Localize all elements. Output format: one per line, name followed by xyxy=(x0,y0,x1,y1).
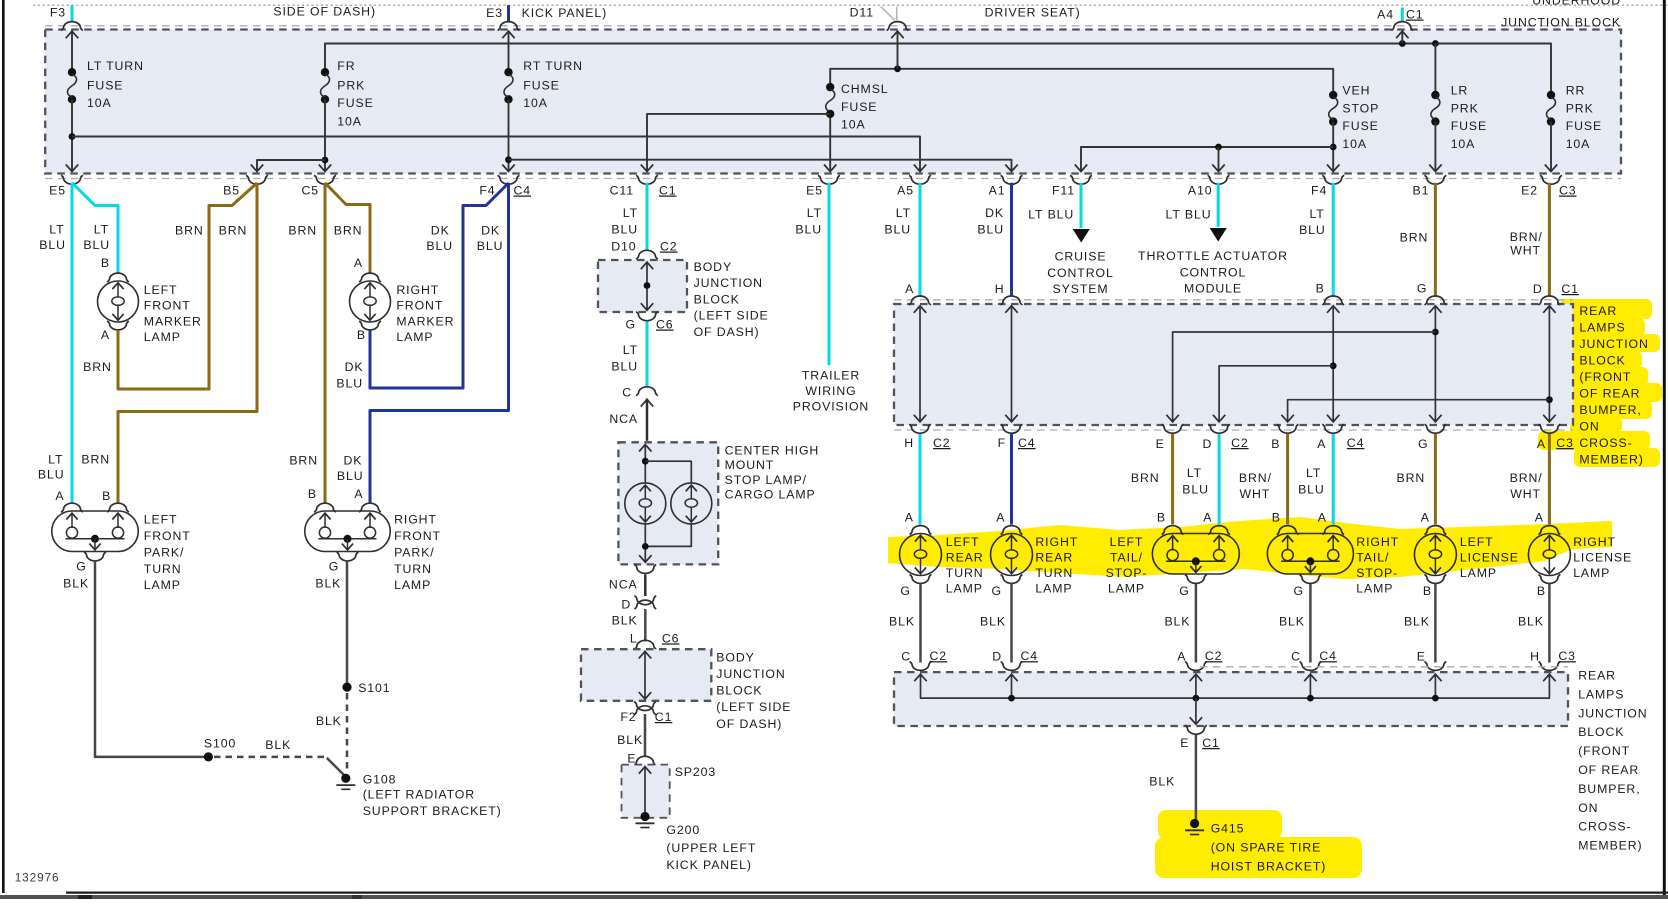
svg-text:10A: 10A xyxy=(523,96,548,110)
svg-text:C4: C4 xyxy=(1347,436,1365,450)
svg-text:LT: LT xyxy=(623,343,638,357)
svg-text:A: A xyxy=(1535,511,1544,525)
svg-text:BODY: BODY xyxy=(694,260,732,274)
svg-text:TURN: TURN xyxy=(394,562,432,576)
fuse RR PRK 10A xyxy=(1547,91,1555,99)
wire NCA below CHMSL xyxy=(644,575,647,597)
svg-text:BLU: BLU xyxy=(884,223,911,237)
svg-text:LAMP: LAMP xyxy=(144,578,181,592)
wire rear block G split to E and G xyxy=(1434,306,1436,421)
svg-text:B: B xyxy=(1271,437,1280,451)
svg-text:FUSE: FUSE xyxy=(87,79,123,93)
svg-text:OF REAR: OF REAR xyxy=(1579,386,1640,400)
wire RT TURN fuse output xyxy=(508,99,510,170)
upper section bottom dashed line xyxy=(45,25,1621,27)
branch A10 xyxy=(1218,147,1220,170)
wire F3 entry xyxy=(71,31,73,73)
svg-text:C4: C4 xyxy=(1021,649,1039,663)
svg-text:LICENSE: LICENSE xyxy=(1573,551,1632,565)
svg-text:LAMP: LAMP xyxy=(1460,566,1497,580)
svg-text:C: C xyxy=(901,650,911,664)
lamp RIGHT LICENSE LAMP xyxy=(1539,526,1561,535)
svg-text:C3: C3 xyxy=(1558,649,1576,663)
svg-text:10A: 10A xyxy=(1451,137,1476,151)
svg-text:MOUNT: MOUNT xyxy=(725,458,775,472)
svg-text:10A: 10A xyxy=(337,115,362,129)
svg-text:JUNCTION: JUNCTION xyxy=(694,276,763,290)
svg-text:SYSTEM: SYSTEM xyxy=(1053,282,1109,296)
lamp LEFT FRONT MARKER LAMP xyxy=(107,273,129,282)
svg-text:CROSS-: CROSS- xyxy=(1579,436,1632,450)
svg-text:BLK: BLK xyxy=(63,577,89,591)
svg-text:A1: A1 xyxy=(989,184,1006,198)
svg-text:REAR: REAR xyxy=(946,551,984,565)
connector H C3 rear block lower xyxy=(1539,662,1561,671)
wire LT BLU to left tail A xyxy=(1218,434,1221,525)
svg-text:PRK: PRK xyxy=(1566,102,1594,116)
svg-text:CHMSL: CHMSL xyxy=(841,82,889,96)
svg-text:LT: LT xyxy=(49,223,64,237)
svg-text:(LEFT RADIATOR: (LEFT RADIATOR xyxy=(363,788,475,802)
companion dashed line under rear block xyxy=(894,429,1573,431)
connector D11 xyxy=(887,22,909,31)
svg-text:MARKER: MARKER xyxy=(144,314,202,328)
svg-text:BRN: BRN xyxy=(219,224,248,238)
lamp RIGHT FRONT PARK/TURN LAMP xyxy=(314,503,336,512)
svg-text:C2: C2 xyxy=(930,649,948,663)
svg-text:C4: C4 xyxy=(1319,649,1337,663)
connector L C6 xyxy=(634,640,656,649)
svg-text:SIDE OF DASH): SIDE OF DASH) xyxy=(273,5,376,19)
svg-text:LT BLU: LT BLU xyxy=(1028,208,1074,222)
wire BLK left park/turn to S100 xyxy=(95,560,208,757)
wire LT BLU from F3 xyxy=(71,5,74,21)
wire BLK to rear block pin A xyxy=(1195,584,1198,663)
bulb CHMSL left xyxy=(625,483,666,524)
svg-text:FUSE: FUSE xyxy=(841,100,877,114)
underhood junction block box xyxy=(45,30,1621,174)
svg-text:(FRONT: (FRONT xyxy=(1579,370,1631,384)
branch FR PRK to B5 xyxy=(257,160,325,170)
svg-text:RIGHT: RIGHT xyxy=(1035,535,1078,549)
svg-text:BLU: BLU xyxy=(337,469,364,483)
wire VEH STOP fuse output xyxy=(1332,122,1334,171)
svg-text:BLU: BLU xyxy=(1299,223,1326,237)
svg-text:BLU: BLU xyxy=(611,360,638,374)
svg-text:CONTROL: CONTROL xyxy=(1047,266,1113,280)
lower companion dashed line under junction block xyxy=(45,178,1621,180)
svg-text:A: A xyxy=(1318,511,1327,525)
svg-text:BLOCK: BLOCK xyxy=(694,292,740,306)
svg-text:G: G xyxy=(76,560,86,574)
wire LT BLU C11 to body junction block xyxy=(646,183,649,250)
svg-text:BRN: BRN xyxy=(83,360,112,374)
svg-text:F4: F4 xyxy=(1311,184,1327,198)
svg-text:DK: DK xyxy=(481,224,500,238)
wire BRN C5 to right park/turn B xyxy=(324,183,327,503)
bus D11 feed xyxy=(830,69,1333,95)
svg-text:NCA: NCA xyxy=(609,578,638,592)
wire DK BLU F4 to right park/turn A xyxy=(370,183,509,503)
svg-text:UNDERHOOD: UNDERHOOD xyxy=(1532,0,1621,8)
wire BRN branch C5 to right marker A xyxy=(325,183,370,274)
svg-text:C2: C2 xyxy=(1231,436,1249,450)
svg-text:G: G xyxy=(992,584,1002,598)
svg-text:A: A xyxy=(1537,437,1546,451)
wire A4 entry xyxy=(1401,31,1403,44)
wire BLK to rear block pin E xyxy=(1434,584,1437,663)
svg-text:WHT: WHT xyxy=(1510,487,1541,501)
splice S100 xyxy=(204,752,213,761)
svg-text:C2: C2 xyxy=(933,436,951,450)
bus RT TURN to A1 xyxy=(509,160,1012,171)
svg-text:BLK: BLK xyxy=(612,614,638,628)
svg-text:LT: LT xyxy=(807,206,822,220)
svg-text:G: G xyxy=(329,560,339,574)
svg-text:C6: C6 xyxy=(656,318,674,332)
wire BRN B1 to rear block G xyxy=(1434,183,1437,296)
lower rear block ground bus xyxy=(921,675,1550,698)
svg-text:BLU: BLU xyxy=(426,239,453,253)
svg-text:A: A xyxy=(354,487,363,501)
svg-text:BRN: BRN xyxy=(1397,471,1426,485)
svg-text:D: D xyxy=(992,650,1002,664)
svg-text:BLOCK: BLOCK xyxy=(1578,725,1624,739)
lamp LEFT TAIL/STOP LAMP xyxy=(1162,526,1184,535)
svg-text:REAR: REAR xyxy=(1579,304,1617,318)
svg-text:LAMP: LAMP xyxy=(394,578,431,592)
svg-text:SUPPORT BRACKET): SUPPORT BRACKET) xyxy=(363,804,502,818)
svg-text:KICK PANEL): KICK PANEL) xyxy=(522,6,608,20)
svg-text:JUNCTION: JUNCTION xyxy=(1579,337,1648,351)
svg-text:C1: C1 xyxy=(1202,736,1220,750)
svg-text:DK: DK xyxy=(985,206,1004,220)
svg-text:C11: C11 xyxy=(610,184,634,198)
fuse RT TURN 10A xyxy=(504,68,512,76)
svg-text:(FRONT: (FRONT xyxy=(1578,744,1630,758)
arrow to throttle actuator xyxy=(1210,228,1227,242)
svg-text:E3: E3 xyxy=(486,6,503,20)
highlight G415 ground label xyxy=(1158,810,1282,839)
svg-text:C1: C1 xyxy=(1406,8,1424,22)
svg-text:A10: A10 xyxy=(1188,184,1213,198)
wire BLK to rear block pin D xyxy=(1010,584,1013,663)
svg-text:LAMP: LAMP xyxy=(1356,582,1393,596)
wire BRN/WHT to right tail B xyxy=(1286,434,1289,525)
svg-text:B: B xyxy=(357,328,366,342)
svg-text:DK: DK xyxy=(344,454,363,468)
svg-text:LT: LT xyxy=(48,452,63,466)
wire DK BLU to right rear turn A xyxy=(1010,434,1013,525)
svg-text:LEFT: LEFT xyxy=(144,513,178,527)
splice S101 xyxy=(342,683,351,692)
svg-text:H: H xyxy=(1530,650,1540,664)
wire E3 entry xyxy=(508,31,510,73)
svg-text:DRIVER SEAT): DRIVER SEAT) xyxy=(985,6,1081,20)
svg-text:10A: 10A xyxy=(1342,137,1367,151)
svg-text:MEMBER): MEMBER) xyxy=(1579,452,1643,466)
svg-text:BRN/: BRN/ xyxy=(1239,471,1272,485)
svg-text:S100: S100 xyxy=(204,737,236,751)
wire NCA to CHMSL box xyxy=(646,399,649,441)
svg-text:BRN: BRN xyxy=(1400,231,1429,245)
connector F4 C4 at junction block bottom xyxy=(498,175,520,184)
svg-text:LT: LT xyxy=(1306,466,1321,480)
svg-text:NCA: NCA xyxy=(609,412,638,426)
svg-text:B: B xyxy=(1157,511,1166,525)
lower rear block output to G415 xyxy=(1195,698,1197,723)
svg-text:JUNCTION: JUNCTION xyxy=(716,667,785,681)
svg-text:LT TURN: LT TURN xyxy=(87,59,144,73)
svg-text:SP203: SP203 xyxy=(675,765,716,779)
svg-text:TURN: TURN xyxy=(144,562,182,576)
svg-text:RIGHT: RIGHT xyxy=(394,513,437,527)
connector E3 xyxy=(498,22,520,31)
connector A1 at junction block bottom xyxy=(1001,175,1023,184)
svg-text:LEFT: LEFT xyxy=(1110,535,1144,549)
connector D C4 rear block lower xyxy=(1001,662,1023,671)
box BODY JUNCTION BLOCK upper xyxy=(598,260,687,312)
svg-text:DK: DK xyxy=(345,360,364,374)
svg-text:C1: C1 xyxy=(655,710,673,724)
wire through SP203 to ground xyxy=(644,766,646,816)
svg-text:B: B xyxy=(101,256,110,270)
svg-text:LAMP: LAMP xyxy=(1108,582,1145,596)
svg-text:CONTROL: CONTROL xyxy=(1180,265,1246,279)
svg-text:(LEFT SIDE: (LEFT SIDE xyxy=(694,309,769,323)
connector B1 at junction block bottom xyxy=(1425,175,1447,184)
wire LT BLU to right tail A xyxy=(1332,434,1335,525)
svg-text:BRN/: BRN/ xyxy=(1510,471,1543,485)
svg-text:BRN: BRN xyxy=(288,224,317,238)
wire LT BLU A5 to rear block A xyxy=(919,183,922,296)
svg-text:KICK PANEL): KICK PANEL) xyxy=(666,858,752,872)
svg-text:DK: DK xyxy=(431,224,450,238)
svg-text:A4: A4 xyxy=(1377,8,1394,22)
wire rear block D split to B and A xyxy=(1548,306,1550,421)
svg-text:B: B xyxy=(308,487,317,501)
svg-text:A: A xyxy=(354,256,363,270)
svg-text:BLU: BLU xyxy=(336,377,363,391)
fuse VEH STOP 10A xyxy=(1329,91,1337,99)
wire LT BLU E5 trailer provision xyxy=(828,183,831,365)
svg-text:G: G xyxy=(1179,584,1189,598)
wire BLK F2 to SP203 xyxy=(644,714,647,757)
wire BRN left marker A to B5 xyxy=(118,183,257,389)
svg-text:TAIL/: TAIL/ xyxy=(1110,551,1143,565)
connector E C1 xyxy=(1185,725,1207,734)
arrow to cruise control xyxy=(1073,229,1090,243)
wire FR PRK fuse output xyxy=(324,99,326,170)
svg-text:FUSE: FUSE xyxy=(1342,119,1378,133)
box REAR LAMPS JUNCTION BLOCK lower xyxy=(894,672,1568,726)
svg-text:FR: FR xyxy=(337,59,355,73)
svg-text:RIGHT: RIGHT xyxy=(1573,535,1616,549)
svg-text:FUSE: FUSE xyxy=(337,96,373,110)
wire BLK to rear block pin C xyxy=(1309,584,1312,663)
connector G C6 xyxy=(636,312,658,321)
svg-text:BLK: BLK xyxy=(1149,775,1175,789)
svg-text:G: G xyxy=(1417,282,1427,296)
svg-text:LT: LT xyxy=(1187,466,1202,480)
svg-text:B5: B5 xyxy=(223,184,240,198)
rear block bottom connectors xyxy=(909,424,931,433)
svg-text:JUNCTION BLOCK: JUNCTION BLOCK xyxy=(1501,16,1621,30)
svg-text:D11: D11 xyxy=(850,6,874,20)
bottom border line xyxy=(66,891,1668,893)
bus VEH STOP to F11 and A10 xyxy=(1081,147,1333,170)
svg-text:LAMP: LAMP xyxy=(946,582,983,596)
wire BLK to G415 xyxy=(1195,735,1198,820)
svg-text:G200: G200 xyxy=(666,823,700,837)
svg-text:BLOCK: BLOCK xyxy=(716,684,762,698)
svg-text:LAMP: LAMP xyxy=(1573,566,1610,580)
svg-text:VEH: VEH xyxy=(1342,84,1370,98)
left page border xyxy=(2,0,5,893)
connector A C2 rear block lower xyxy=(1185,662,1207,671)
svg-text:10A: 10A xyxy=(841,118,866,132)
companion dashed line above lower rear block xyxy=(1200,666,1568,668)
svg-text:TRAILER: TRAILER xyxy=(802,369,860,383)
wire BRN to left license A xyxy=(1434,434,1437,525)
connector F3 xyxy=(61,22,83,31)
connector D10 C2 xyxy=(636,250,658,259)
svg-text:CENTER HIGH: CENTER HIGH xyxy=(725,444,820,458)
connector E rear block lower xyxy=(1425,662,1447,671)
svg-text:B: B xyxy=(1423,584,1432,598)
wire through body junction block xyxy=(646,262,648,311)
svg-text:C3: C3 xyxy=(1559,184,1577,198)
lamp RIGHT FRONT MARKER LAMP xyxy=(359,273,381,282)
svg-text:BRN: BRN xyxy=(81,452,110,466)
svg-text:LICENSE: LICENSE xyxy=(1460,551,1519,565)
wire BLK to rear block pin H xyxy=(1548,584,1551,663)
svg-text:G: G xyxy=(1294,584,1304,598)
lamp LEFT FRONT PARK/TURN LAMP xyxy=(61,503,83,512)
wire BRN/WHT E2 C3 to rear block D xyxy=(1548,183,1551,296)
svg-text:BLK: BLK xyxy=(1404,615,1430,629)
lamp LEFT REAR TURN LAMP xyxy=(910,526,932,535)
svg-text:OF DASH): OF DASH) xyxy=(716,717,782,731)
wire BRN to left tail B xyxy=(1171,434,1174,525)
lamp LEFT LICENSE LAMP xyxy=(1425,526,1447,535)
fuse LT TURN 10A xyxy=(68,68,76,76)
fuse LR PRK 10A xyxy=(1434,44,1436,96)
connector E2 C3 at junction block bottom xyxy=(1540,175,1562,184)
svg-text:D10: D10 xyxy=(611,240,636,254)
svg-text:H: H xyxy=(904,436,914,450)
svg-text:BLK: BLK xyxy=(1518,615,1544,629)
svg-text:REAR: REAR xyxy=(1578,669,1616,683)
wire LT BLU from A4 xyxy=(1401,8,1404,22)
svg-text:A: A xyxy=(55,489,64,503)
svg-text:MODULE: MODULE xyxy=(1184,282,1242,296)
svg-text:BRN: BRN xyxy=(334,224,363,238)
svg-text:FRONT: FRONT xyxy=(144,529,191,543)
svg-text:E5: E5 xyxy=(49,184,66,198)
svg-text:F11: F11 xyxy=(1052,184,1075,198)
svg-text:D: D xyxy=(621,598,631,612)
svg-text:BLU: BLU xyxy=(39,238,66,252)
svg-text:C4: C4 xyxy=(1018,436,1036,450)
svg-text:OF DASH): OF DASH) xyxy=(694,325,760,339)
svg-text:LEFT: LEFT xyxy=(946,535,980,549)
wire DK BLU A1 to rear block H xyxy=(1010,183,1013,296)
connector F2 C1 xyxy=(634,702,656,711)
svg-text:BODY: BODY xyxy=(716,651,754,665)
wire BRN/WHT to right license A xyxy=(1548,434,1551,525)
svg-text:BLU: BLU xyxy=(1298,483,1325,497)
svg-text:F: F xyxy=(998,436,1006,450)
box REAR LAMPS JUNCTION BLOCK upper xyxy=(894,299,1573,301)
wire LT BLU F11 to cruise control xyxy=(1080,183,1083,228)
svg-text:BRN: BRN xyxy=(1131,471,1160,485)
svg-text:PRK: PRK xyxy=(1451,102,1479,116)
connector C C2 rear block lower xyxy=(910,662,932,671)
svg-text:A: A xyxy=(101,328,110,342)
bottom scrollbar strip xyxy=(0,895,1668,899)
svg-text:FUSE: FUSE xyxy=(523,79,559,93)
svg-text:BLU: BLU xyxy=(611,223,638,237)
svg-text:BLU: BLU xyxy=(795,223,822,237)
svg-text:PROVISION: PROVISION xyxy=(793,400,869,414)
svg-text:C5: C5 xyxy=(301,184,319,198)
wire BLK to L C6 xyxy=(644,609,647,642)
connector A10 at junction block bottom xyxy=(1208,175,1230,184)
svg-text:LT: LT xyxy=(896,206,911,220)
wire RR PRK fuse output xyxy=(1550,122,1552,171)
svg-text:BLK: BLK xyxy=(265,738,291,752)
wire LT BLU branch to left marker B xyxy=(72,183,118,274)
connector E5 at junction block bottom xyxy=(818,175,840,184)
svg-text:G: G xyxy=(1418,437,1428,451)
svg-text:LAMPS: LAMPS xyxy=(1578,687,1624,701)
lamp RIGHT TAIL/STOP LAMP xyxy=(1277,526,1299,535)
wire LT TURN fuse output xyxy=(71,99,73,170)
svg-text:E5: E5 xyxy=(806,184,823,198)
svg-text:TURN: TURN xyxy=(946,566,984,580)
svg-text:BLU: BLU xyxy=(477,239,504,253)
svg-text:C: C xyxy=(1291,650,1301,664)
svg-text:B: B xyxy=(1316,282,1325,296)
fuse CHMSL 10A xyxy=(826,83,834,91)
svg-text:B: B xyxy=(1537,584,1546,598)
svg-text:(UPPER LEFT: (UPPER LEFT xyxy=(666,841,756,855)
svg-text:LEFT: LEFT xyxy=(144,283,178,297)
svg-text:FRONT: FRONT xyxy=(144,299,191,313)
wire rear block A to H straight xyxy=(919,306,921,421)
ground G108 xyxy=(341,774,350,783)
svg-text:G: G xyxy=(900,584,910,598)
CHMSL bottom junction xyxy=(644,524,646,562)
svg-text:PRK: PRK xyxy=(337,79,365,93)
svg-text:C3: C3 xyxy=(1556,436,1574,450)
svg-text:BLK: BLK xyxy=(1279,615,1305,629)
svg-text:L: L xyxy=(630,631,638,645)
svg-text:BLK: BLK xyxy=(617,733,643,747)
svg-text:C2: C2 xyxy=(660,240,678,254)
bus LT TURN to A5 xyxy=(72,137,920,171)
connector A4 C1 xyxy=(1391,22,1413,31)
wire LT BLU A10 to throttle actuator xyxy=(1217,183,1220,227)
svg-text:C1: C1 xyxy=(659,184,677,198)
svg-text:LAMP: LAMP xyxy=(396,330,433,344)
svg-text:E2: E2 xyxy=(1521,184,1538,198)
svg-text:B1: B1 xyxy=(1413,184,1430,198)
connector E5 at junction block bottom xyxy=(61,175,83,184)
svg-text:A: A xyxy=(905,511,914,525)
wire DK BLU right marker B to F4 xyxy=(370,183,509,388)
